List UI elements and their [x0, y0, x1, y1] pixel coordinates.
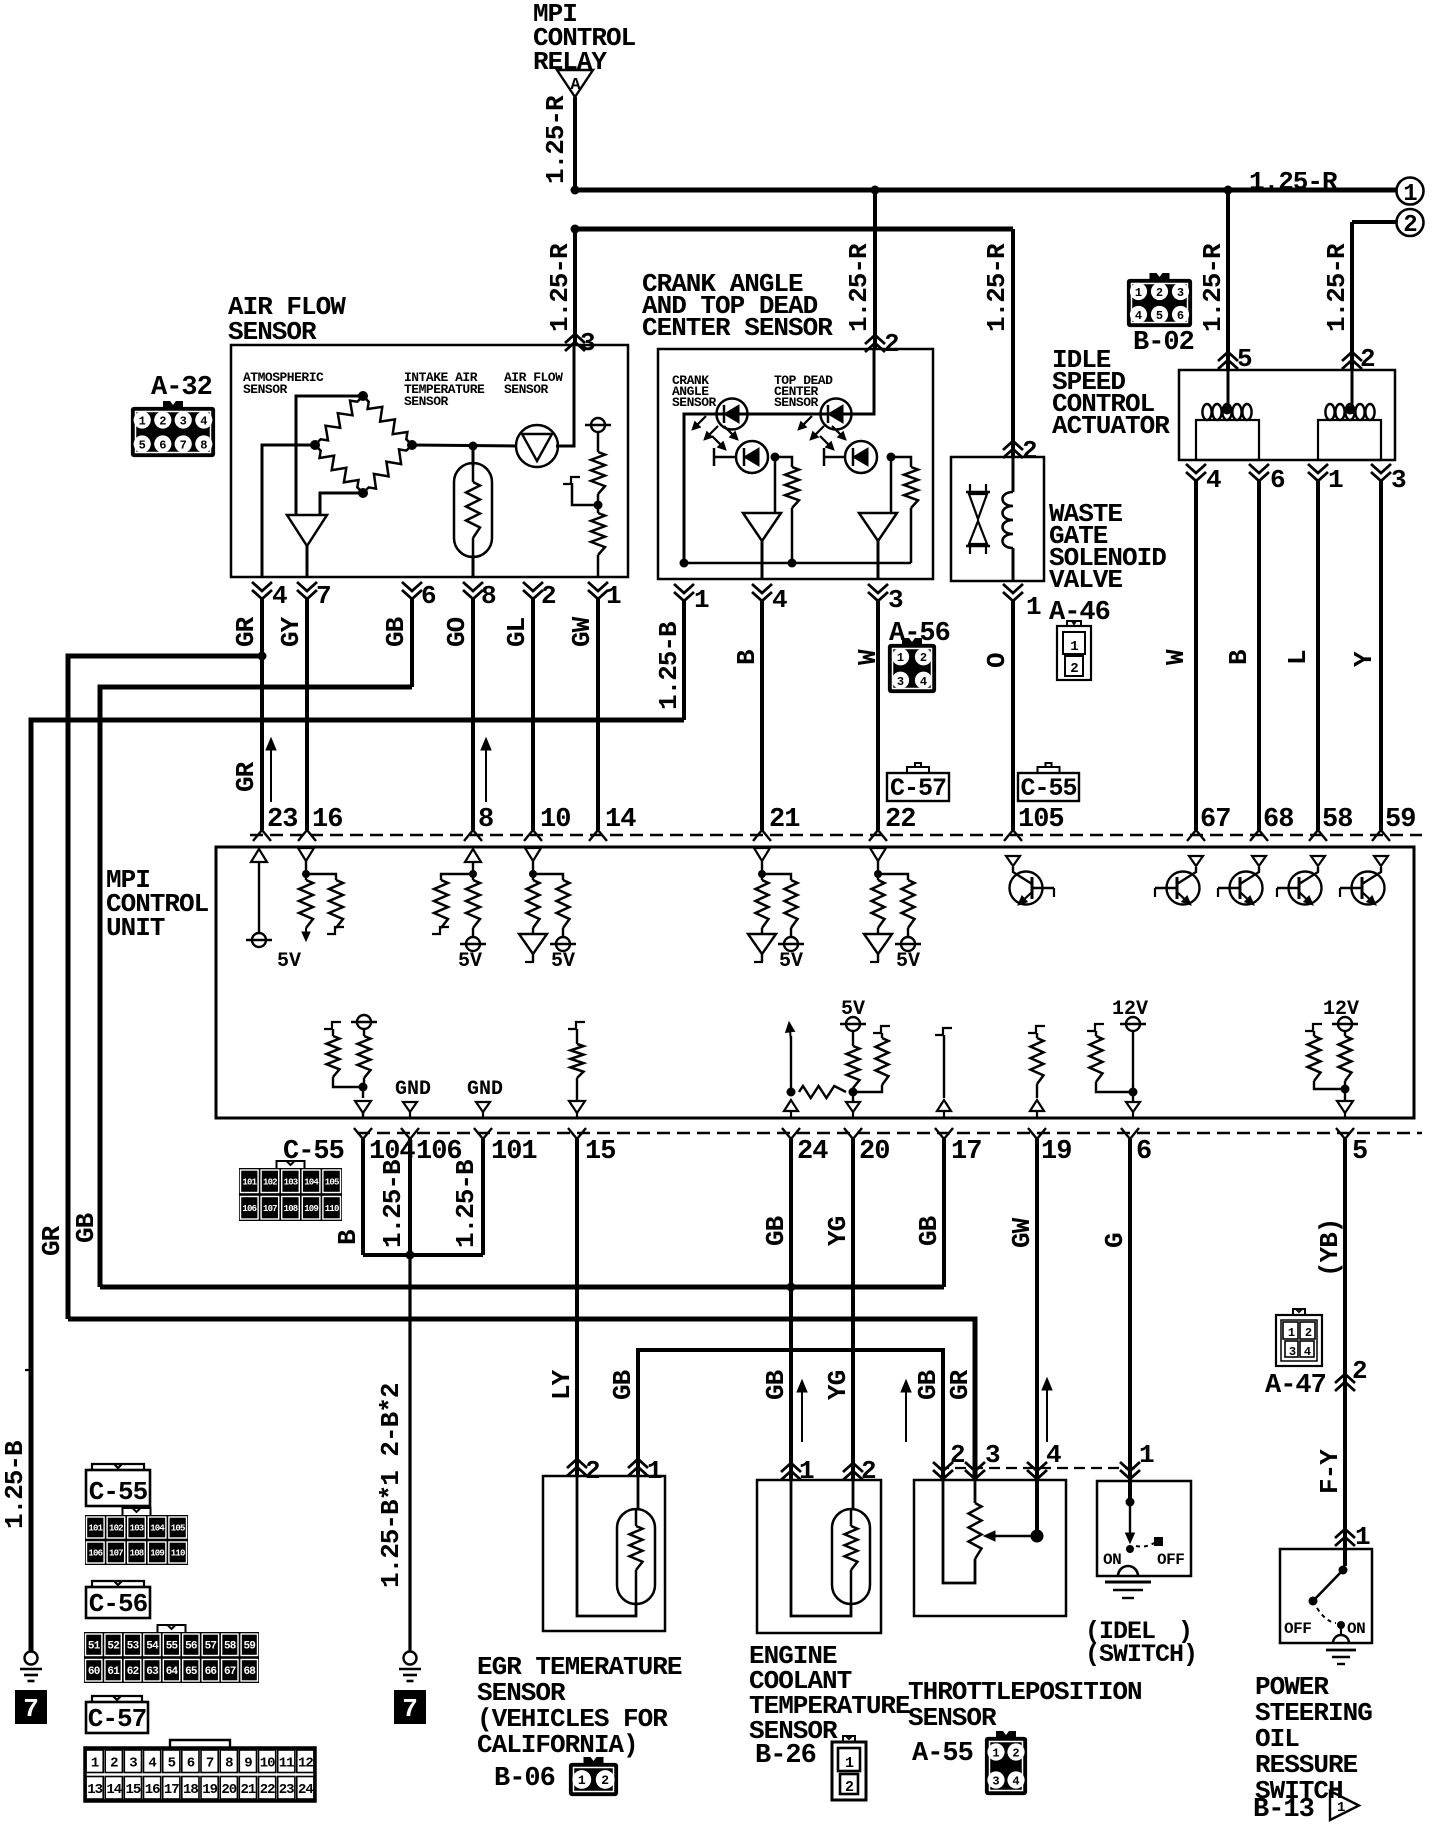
svg-text:RELAY: RELAY: [533, 47, 607, 77]
signal arrow GR with label: [231, 738, 276, 802]
ISC pin 3 exit arrow: [1371, 464, 1406, 495]
MPI pin 23 top entry: [253, 805, 297, 841]
atmospheric sensor bridge resistor top-left: [315, 396, 363, 445]
wire GR rail horizontal to TPS pin3: [68, 1319, 975, 1480]
power steering oil pressure switch box: [1280, 1549, 1372, 1643]
wire GB EGR pin1 to TPS pin2: [608, 1350, 943, 1480]
svg-text:103: 103: [284, 1178, 298, 1188]
svg-text:2: 2: [861, 1456, 876, 1486]
svg-text:SENSOR: SENSOR: [228, 317, 317, 347]
svg-text:1.25-R: 1.25-R: [1249, 167, 1338, 197]
crank angle sensor box: [658, 349, 933, 579]
svg-text:51: 51: [88, 1641, 101, 1653]
svg-text:4: 4: [1206, 465, 1221, 495]
svg-text:67: 67: [224, 1666, 236, 1678]
wire 1.25-R to waste gate solenoid pin 2: [982, 229, 1013, 457]
bridge node bottom: [358, 488, 368, 498]
wire GL air flow pin2 to MPI pin10: [502, 599, 533, 830]
wire bridge right to air flow sensor: [412, 445, 516, 446]
svg-text:14: 14: [106, 1782, 121, 1798]
svg-text:106: 106: [88, 1549, 102, 1559]
signal arrow ECT GB: [801, 1392, 803, 1442]
svg-text:15: 15: [585, 1137, 615, 1167]
svg-text:5V: 5V: [551, 950, 575, 973]
connector A-47 pin2 arrow: [1335, 1356, 1367, 1391]
signal arrow GW: [1046, 1390, 1048, 1442]
svg-text:52: 52: [107, 1641, 119, 1653]
node junction at (575,229): [571, 225, 580, 234]
svg-text:4: 4: [920, 675, 927, 689]
svg-text:CENTER SENSOR: CENTER SENSOR: [642, 313, 833, 343]
wire G MPI pin6 to idle switch pin1: [1100, 1139, 1130, 1502]
wire B MPI pin104 bracket: [333, 1139, 363, 1255]
MPI output transistor pin 58: [1277, 856, 1325, 905]
node junction pickup tap: [594, 501, 603, 510]
svg-text:54: 54: [146, 1641, 159, 1653]
ISC pin 4 exit arrow: [1186, 464, 1221, 495]
svg-text:O: O: [982, 653, 1012, 668]
MPI pin 19 bottom exit: [1028, 1128, 1071, 1167]
TPS pin 4 arrow: [1027, 1440, 1061, 1479]
svg-text:66: 66: [205, 1666, 217, 1678]
MPI pin 106 bottom exit: [401, 1128, 462, 1167]
MPI pin 22 top entry: [869, 805, 915, 841]
svg-text:A-32: A-32: [151, 373, 212, 403]
LED top dead center sensor: [821, 399, 852, 430]
svg-text:67: 67: [1200, 805, 1230, 835]
wire bridge top to amplifier input: [296, 396, 363, 515]
wire bridge bottom to amplifier input: [320, 493, 363, 515]
svg-text:1: 1: [992, 1747, 999, 1761]
svg-text:60: 60: [88, 1666, 100, 1678]
wire 1.25-R to air flow sensor pin 3: [545, 229, 575, 345]
svg-text:GR: GR: [231, 761, 261, 792]
waste gate title: [1049, 499, 1166, 595]
svg-text:2: 2: [920, 651, 927, 665]
svg-text:1: 1: [1337, 1800, 1345, 1816]
wire 1.25-B MPI pin106 bracket: [378, 1139, 410, 1255]
ECT sensor pin 2 arrow: [843, 1456, 876, 1486]
svg-text:1: 1: [1288, 1326, 1295, 1340]
MPI pin 68 top entry: [1250, 805, 1293, 841]
svg-text:110: 110: [171, 1549, 185, 1559]
photodiode TDC sensor: [824, 441, 877, 473]
svg-text:106: 106: [242, 1204, 256, 1214]
ground rail labels left: [0, 1212, 101, 1529]
connector C-55 tab label: [1018, 763, 1079, 803]
svg-text:GY: GY: [276, 616, 306, 647]
MPI input network pin 10: [519, 848, 576, 973]
svg-text:68: 68: [1263, 805, 1293, 835]
wire 1.25-R to crank sensor pin 2: [844, 190, 875, 349]
svg-text:16: 16: [145, 1782, 160, 1798]
svg-text:3: 3: [985, 1440, 1000, 1470]
wire LY MPI pin15 to EGR pin2: [547, 1139, 577, 1476]
svg-text:105: 105: [171, 1524, 185, 1534]
svg-text:2: 2: [541, 581, 556, 611]
MPI pin 104 bottom exit: [354, 1128, 415, 1167]
TPS pin 2 arrow: [933, 1440, 965, 1479]
svg-text:A-55: A-55: [912, 1739, 973, 1769]
svg-text:2: 2: [884, 329, 899, 359]
waste gate solenoid valve box: [951, 457, 1044, 581]
svg-text:6: 6: [159, 439, 166, 453]
svg-text:6: 6: [421, 581, 436, 611]
signal arrow TPS GB: [905, 1392, 907, 1442]
svg-text:GB: GB: [913, 1369, 943, 1400]
svg-text:1: 1: [1403, 181, 1417, 208]
svg-text:8: 8: [225, 1755, 233, 1771]
svg-text:Y: Y: [1349, 651, 1379, 667]
node junction at (875,190): [871, 186, 880, 195]
svg-text:58: 58: [224, 1641, 237, 1653]
MPI output transistor pin 68: [1218, 856, 1266, 905]
svg-text:SENSOR: SENSOR: [774, 395, 819, 410]
svg-text:2: 2: [1012, 1747, 1019, 1761]
svg-text:20: 20: [859, 1137, 889, 1167]
air flow sensor vortex symbol: [516, 425, 558, 467]
wire YG MPI pin20 to ECT pin2: [823, 1139, 853, 1480]
svg-text:1: 1: [897, 651, 904, 665]
op-amp triangle atmospheric sensor: [287, 515, 327, 546]
svg-text:11: 11: [279, 1755, 294, 1771]
svg-text:C-55: C-55: [1020, 774, 1076, 803]
svg-text:1: 1: [91, 1755, 99, 1771]
svg-text:GW: GW: [567, 616, 597, 647]
bridge node top: [358, 391, 368, 401]
power steering switch contact: [1284, 1566, 1365, 1644]
MPI input network pin 22: [864, 848, 921, 973]
connector B-02 icon: [1128, 273, 1191, 326]
connector A-46 icon: [1057, 621, 1091, 680]
svg-text:B: B: [732, 649, 762, 665]
connector C-55 grid icon near pin 104: [239, 1161, 342, 1221]
MPI control unit label: [106, 865, 209, 943]
svg-text:GR: GR: [37, 1225, 67, 1256]
node junction crank photodiode out: [771, 453, 780, 462]
MPI output transistor pin 67: [1155, 856, 1203, 905]
svg-text:2: 2: [110, 1755, 118, 1771]
svg-text:65: 65: [185, 1666, 198, 1678]
svg-text:ON: ON: [1103, 1551, 1121, 1569]
wire GB air flow pin6 to left rail: [100, 599, 412, 1287]
wire GO air flow pin8 to MPI pin8: [442, 599, 473, 830]
svg-text:(SWITCH): (SWITCH): [1085, 1640, 1197, 1669]
svg-text:6: 6: [1270, 465, 1285, 495]
svg-text:13: 13: [87, 1782, 102, 1798]
svg-text:GND: GND: [395, 1078, 431, 1101]
MPI network pin 5: [1305, 998, 1359, 1118]
svg-text:17: 17: [951, 1137, 981, 1167]
svg-text:SENSOR: SENSOR: [908, 1703, 997, 1733]
connector C-57 tab label: [887, 763, 949, 803]
svg-text:19: 19: [202, 1782, 217, 1798]
node junction coil2: [1346, 406, 1355, 415]
svg-text:58: 58: [1322, 805, 1352, 835]
svg-text:104: 104: [304, 1178, 319, 1188]
svg-text:8: 8: [481, 581, 496, 611]
connector A-32 icon: [132, 401, 214, 456]
MPI pin 67 top entry: [1187, 805, 1230, 841]
svg-text:C-57: C-57: [88, 1704, 146, 1734]
idle speed control actuator title: [1052, 345, 1170, 441]
EGR sensor pin 2 arrow: [567, 1456, 600, 1486]
connector B-26 icon: [832, 1736, 866, 1800]
MPI control unit connector dashed line bottom: [357, 1132, 1422, 1135]
svg-text:C-56: C-56: [89, 1589, 148, 1619]
svg-text:G: G: [1100, 1233, 1130, 1248]
svg-text:55: 55: [166, 1641, 179, 1653]
TPS potentiometer: [943, 1480, 982, 1583]
svg-text:YG: YG: [823, 1370, 853, 1400]
svg-text:6: 6: [1177, 309, 1184, 323]
wire GB MPI pin24 to ECT pin1: [761, 1139, 791, 1480]
svg-text:F-Y: F-Y: [1315, 1449, 1345, 1494]
MPI network pin 6: [1087, 998, 1148, 1118]
svg-text:6: 6: [187, 1755, 195, 1771]
svg-text:1: 1: [694, 585, 709, 615]
svg-text:1: 1: [139, 415, 146, 429]
wire combined ground lead 1.25-B*1 2-B*2: [376, 1255, 410, 1652]
air flow sensor pin 1 exit arrow: [588, 581, 621, 611]
svg-text:2: 2: [1022, 436, 1037, 466]
svg-text:59: 59: [243, 1641, 255, 1653]
svg-text:1: 1: [1355, 1522, 1370, 1552]
node junction ground bus left: [680, 559, 689, 568]
wire amplifier output to pin 7: [306, 546, 309, 577]
svg-text:W: W: [1161, 649, 1191, 665]
svg-text:2: 2: [1305, 1326, 1312, 1340]
svg-text:9: 9: [244, 1755, 252, 1771]
light emission arrows TDC LED: [804, 416, 812, 424]
pickup tap lead: [563, 477, 598, 505]
svg-text:5: 5: [139, 439, 146, 453]
light incidence arrows crank photodiode: [712, 436, 720, 444]
svg-text:L: L: [1283, 650, 1313, 665]
svg-text:59: 59: [1385, 805, 1415, 835]
svg-text:SENSOR: SENSOR: [672, 395, 717, 410]
node junction GB rail: [787, 1283, 796, 1292]
air flow sensor title: [228, 292, 346, 347]
svg-text:4: 4: [148, 1755, 156, 1771]
bridge node left: [310, 440, 320, 450]
svg-text:63: 63: [146, 1666, 159, 1678]
svg-text:GB: GB: [914, 1215, 944, 1246]
svg-text:7: 7: [316, 581, 331, 611]
svg-text:B-13: B-13: [1253, 1795, 1314, 1825]
TDC pull resistor: [891, 457, 918, 563]
svg-text:5V: 5V: [779, 950, 803, 973]
svg-text:GR: GR: [945, 1369, 975, 1400]
engine coolant temperature sensor box: [757, 1480, 881, 1633]
connector C-57 tab label: [86, 1696, 148, 1734]
idle switch pin 1 arrow: [1120, 1440, 1154, 1479]
engine coolant temperature sensor title: [749, 1641, 910, 1746]
wire 1.25-B crank pin1 to left rail and ground: [31, 601, 684, 1652]
connector B-06 icon: [570, 1757, 617, 1795]
MPI input network pin 21: [748, 848, 804, 973]
svg-text:GB: GB: [381, 616, 411, 647]
node junction TDC photodiode out: [887, 453, 896, 462]
idle switch label: [1085, 1617, 1197, 1669]
bridge node right: [407, 440, 417, 450]
svg-text:109: 109: [304, 1204, 318, 1214]
wire GW MPI pin19 to TPS pin4: [1007, 1139, 1037, 1536]
svg-text:2: 2: [1403, 212, 1416, 239]
svg-text:4: 4: [1012, 1775, 1019, 1789]
wire W ISC pin4 to MPI pin67: [1161, 481, 1196, 830]
svg-text:GB: GB: [761, 1215, 791, 1246]
MPI output transistor pin 59: [1340, 856, 1388, 905]
svg-text:108: 108: [130, 1549, 144, 1559]
svg-text:B-06: B-06: [494, 1764, 555, 1794]
light emission arrows crank LED: [698, 416, 706, 424]
svg-text:22: 22: [260, 1782, 275, 1798]
terminal circled 1: [1397, 178, 1424, 209]
MPI TPS network pins 24-20: [784, 998, 890, 1118]
label AIR FLOW SENSOR: [504, 370, 563, 397]
svg-text:61: 61: [107, 1666, 120, 1678]
svg-text:2: 2: [950, 1440, 965, 1470]
svg-text:101: 101: [242, 1178, 257, 1188]
wire GY air flow pin7 to MPI pin16: [276, 599, 307, 830]
svg-text:22: 22: [885, 805, 915, 835]
MPI pin 10 top entry: [524, 805, 570, 841]
terminal circled 2 with wire: [1352, 209, 1424, 239]
node junction bracket: [406, 1251, 415, 1260]
svg-text:7: 7: [206, 1755, 214, 1771]
svg-text:101: 101: [88, 1524, 103, 1534]
svg-text:4: 4: [1046, 1440, 1061, 1470]
idle switch box: [1097, 1481, 1191, 1576]
label TOP DEAD CENTER SENSOR: [774, 373, 833, 410]
svg-text:OFF: OFF: [1157, 1551, 1184, 1569]
connector C-56 tab label: [86, 1581, 150, 1619]
svg-text:57: 57: [205, 1641, 217, 1653]
svg-text:64: 64: [166, 1666, 179, 1678]
crank sensor pin 4 exit arrow: [752, 584, 787, 615]
svg-text:W: W: [853, 649, 883, 665]
idle switch contact: [1103, 1498, 1184, 1577]
svg-text:3: 3: [580, 328, 595, 358]
svg-text:110: 110: [325, 1204, 339, 1214]
ground symbol center 1.25-B: [394, 1652, 426, 1725]
svg-text:1.25-B: 1.25-B: [654, 621, 684, 710]
svg-text:4: 4: [1304, 1345, 1311, 1359]
svg-text:5V: 5V: [277, 950, 301, 973]
label INTAKE AIR TEMPERATURE SENSOR: [404, 370, 485, 409]
crank angle and top dead center sensor title: [642, 269, 833, 343]
svg-text:GB: GB: [71, 1212, 101, 1243]
svg-text:15: 15: [125, 1782, 140, 1798]
wire pin5 into coil1: [1227, 370, 1230, 414]
svg-text:GO: GO: [442, 617, 472, 647]
svg-text:OFF: OFF: [1284, 1620, 1311, 1638]
wire 1.25-R to idle speed actuator pin 2: [1322, 222, 1352, 370]
MPI pin 16 top entry: [298, 805, 342, 841]
svg-text:2: 2: [601, 1773, 609, 1788]
svg-text:1.25-B: 1.25-B: [0, 1440, 30, 1529]
svg-text:102: 102: [109, 1524, 123, 1534]
wire pin2 feed to both LEDs: [684, 349, 874, 563]
crank sensor pin 3 exit arrow: [868, 584, 903, 615]
MPI control unit connector dashed line top: [250, 834, 1422, 837]
svg-text:SENSOR: SENSOR: [404, 394, 449, 409]
air flow sensor pin 7 exit arrow: [297, 581, 331, 611]
node junction at (575,190): [571, 186, 580, 195]
MPI pin 15 bottom exit: [568, 1128, 615, 1167]
air flow sensor pickup supply circle: [591, 418, 605, 432]
svg-text:1.25-B: 1.25-B: [378, 1159, 408, 1248]
svg-text:3: 3: [897, 675, 904, 689]
atmospheric sensor bridge resistor bottom-right: [363, 445, 412, 493]
atmospheric sensor bridge resistor top-right: [363, 396, 412, 445]
MPI output transistor pin 105: [1006, 856, 1054, 905]
svg-text:1: 1: [799, 1456, 814, 1486]
svg-text:7: 7: [180, 439, 187, 453]
svg-text:107: 107: [263, 1204, 277, 1214]
svg-text:14: 14: [605, 805, 636, 835]
svg-text:1: 1: [647, 1456, 662, 1486]
svg-text:A-46: A-46: [1049, 598, 1110, 628]
svg-text:GB: GB: [608, 1369, 638, 1400]
svg-text:C-55: C-55: [89, 1477, 148, 1507]
wire B crank pin4 to MPI pin21: [732, 601, 762, 830]
svg-text:68: 68: [243, 1666, 256, 1678]
svg-text:107: 107: [109, 1549, 123, 1559]
throttle position sensor box: [914, 1480, 1066, 1616]
svg-text:1: 1: [1026, 592, 1041, 622]
svg-text:ON: ON: [1347, 1620, 1365, 1638]
wire YB MPI pin5 to power steering switch: [1315, 1139, 1345, 1566]
svg-text:19: 19: [1041, 1137, 1071, 1167]
svg-text:10: 10: [540, 805, 570, 835]
svg-text:5V: 5V: [458, 950, 482, 973]
svg-text:1.25-R: 1.25-R: [982, 243, 1012, 332]
ISC coil 2: [1318, 404, 1381, 460]
power steering oil pressure switch title: [1255, 1672, 1372, 1806]
svg-text:6: 6: [1136, 1137, 1151, 1167]
ground symbol power steering switch: [1326, 1650, 1356, 1664]
svg-text:GL: GL: [502, 617, 532, 647]
air flow sensor pickup resistor upper: [591, 432, 605, 505]
svg-text:GND: GND: [467, 1078, 503, 1101]
svg-text:2: 2: [585, 1456, 600, 1486]
wire GB MPI pin17 leg: [914, 1139, 944, 1287]
wire Y ISC pin3 to MPI pin59: [1349, 481, 1381, 830]
svg-text:5: 5: [168, 1755, 176, 1771]
intake air temperature sensor thermistor: [454, 446, 492, 577]
svg-text:23: 23: [279, 1782, 294, 1798]
svg-text:YG: YG: [823, 1216, 853, 1246]
svg-text:4: 4: [200, 415, 207, 429]
svg-text:23: 23: [267, 805, 297, 835]
svg-text:2: 2: [845, 1779, 854, 1796]
air flow sensor pin 8 exit arrow: [463, 581, 496, 611]
svg-text:4: 4: [1135, 309, 1142, 323]
connector A-55 icon: [986, 1731, 1026, 1794]
svg-text:SENSOR: SENSOR: [504, 382, 549, 397]
svg-text:1: 1: [845, 1755, 854, 1772]
MPI pin 21 top entry: [753, 805, 800, 841]
svg-text:53: 53: [127, 1641, 140, 1653]
svg-text:21: 21: [769, 805, 800, 835]
wire GB rail horizontal: [100, 1285, 944, 1290]
svg-text:2: 2: [1070, 661, 1078, 677]
power steering switch pin 1 arrow: [1335, 1522, 1370, 1552]
signal arrow GO: [485, 750, 487, 802]
svg-text:3: 3: [888, 585, 903, 615]
